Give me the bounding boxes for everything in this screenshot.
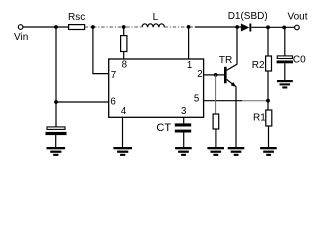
junction divider node <box>266 99 270 103</box>
ground (CT) <box>175 147 192 156</box>
capacitor C0 <box>277 56 292 59</box>
wire pin 4 to ground <box>122 117 124 147</box>
svg-text:2: 2 <box>197 69 202 80</box>
junction R2 node <box>266 25 270 29</box>
junction node pin7 branch <box>91 25 95 29</box>
resistor (pin 8 drive) <box>123 27 125 36</box>
wire pin 6 <box>56 101 109 103</box>
junction node pin1 branch <box>187 25 191 29</box>
svg-text:C0: C0 <box>293 55 306 66</box>
capacitor Cin <box>47 127 65 129</box>
svg-text:R2: R2 <box>252 60 265 71</box>
terminal Vin <box>18 25 23 30</box>
wire pin 1 <box>188 27 190 59</box>
svg-text:6: 6 <box>110 97 115 108</box>
wire diode to Vout <box>251 26 294 28</box>
junction pin6 node <box>54 100 58 104</box>
inductor L <box>142 24 164 28</box>
svg-text:CT: CT <box>156 122 171 134</box>
svg-text:5: 5 <box>194 94 199 105</box>
svg-text:1: 1 <box>187 60 192 71</box>
ground (emitter) <box>228 147 245 156</box>
resistor (base bleed) <box>215 75 217 114</box>
resistor Rsc <box>69 25 85 30</box>
capacitor CT <box>175 123 191 126</box>
junction collector node <box>235 25 239 29</box>
transistor TR <box>224 64 237 87</box>
wire (dashed) L to pin1 node <box>164 26 195 28</box>
resistor R2 <box>267 27 269 56</box>
svg-text:7: 7 <box>111 70 116 81</box>
diode D1 <box>241 24 249 32</box>
terminal Vout <box>295 25 300 30</box>
wire pin 7 <box>93 27 109 74</box>
wire CT to ground <box>183 133 185 148</box>
wire collector up <box>236 27 238 64</box>
wire input vertical <box>55 27 57 127</box>
ground (base bleed) <box>207 147 224 156</box>
wire R1 to ground <box>268 126 270 147</box>
svg-text:D1(SBD): D1(SBD) <box>228 11 268 22</box>
junction input node <box>54 25 58 29</box>
ground (R1) <box>260 147 277 156</box>
junction node pin8 branch <box>122 25 126 29</box>
svg-text:TR: TR <box>219 55 232 66</box>
ground (pin 4) <box>113 147 132 156</box>
svg-text:L: L <box>153 12 159 23</box>
wire C0 to ground <box>284 63 286 80</box>
svg-text:8: 8 <box>122 59 127 70</box>
svg-text:Rsc: Rsc <box>68 12 85 23</box>
svg-text:Vout: Vout <box>288 12 308 23</box>
wire C0 drop <box>284 27 286 56</box>
op-amp U1 (control IC box) <box>109 59 204 117</box>
wire pin 5 to divider <box>204 100 242 102</box>
wire (dashed) Rsc to L <box>85 26 142 28</box>
junction C0 node <box>282 26 286 30</box>
wire pin 3 <box>183 117 185 124</box>
ground (C0) <box>277 80 293 89</box>
wire emitter down to ground <box>235 87 237 148</box>
wire Cin to ground <box>55 135 57 147</box>
svg-text:4: 4 <box>121 106 127 117</box>
wire R2 to R1 <box>267 71 269 110</box>
wire pin 2 to base <box>204 74 225 76</box>
svg-text:R1: R1 <box>253 112 266 123</box>
ground (input cap) <box>47 147 66 156</box>
svg-text:3: 3 <box>181 106 186 117</box>
resistor R1 <box>266 110 272 126</box>
junction base resistor node <box>214 73 218 77</box>
svg-text:Vin: Vin <box>14 32 28 43</box>
wire Vin to Rsc <box>23 26 69 28</box>
wire to diode <box>195 26 241 28</box>
